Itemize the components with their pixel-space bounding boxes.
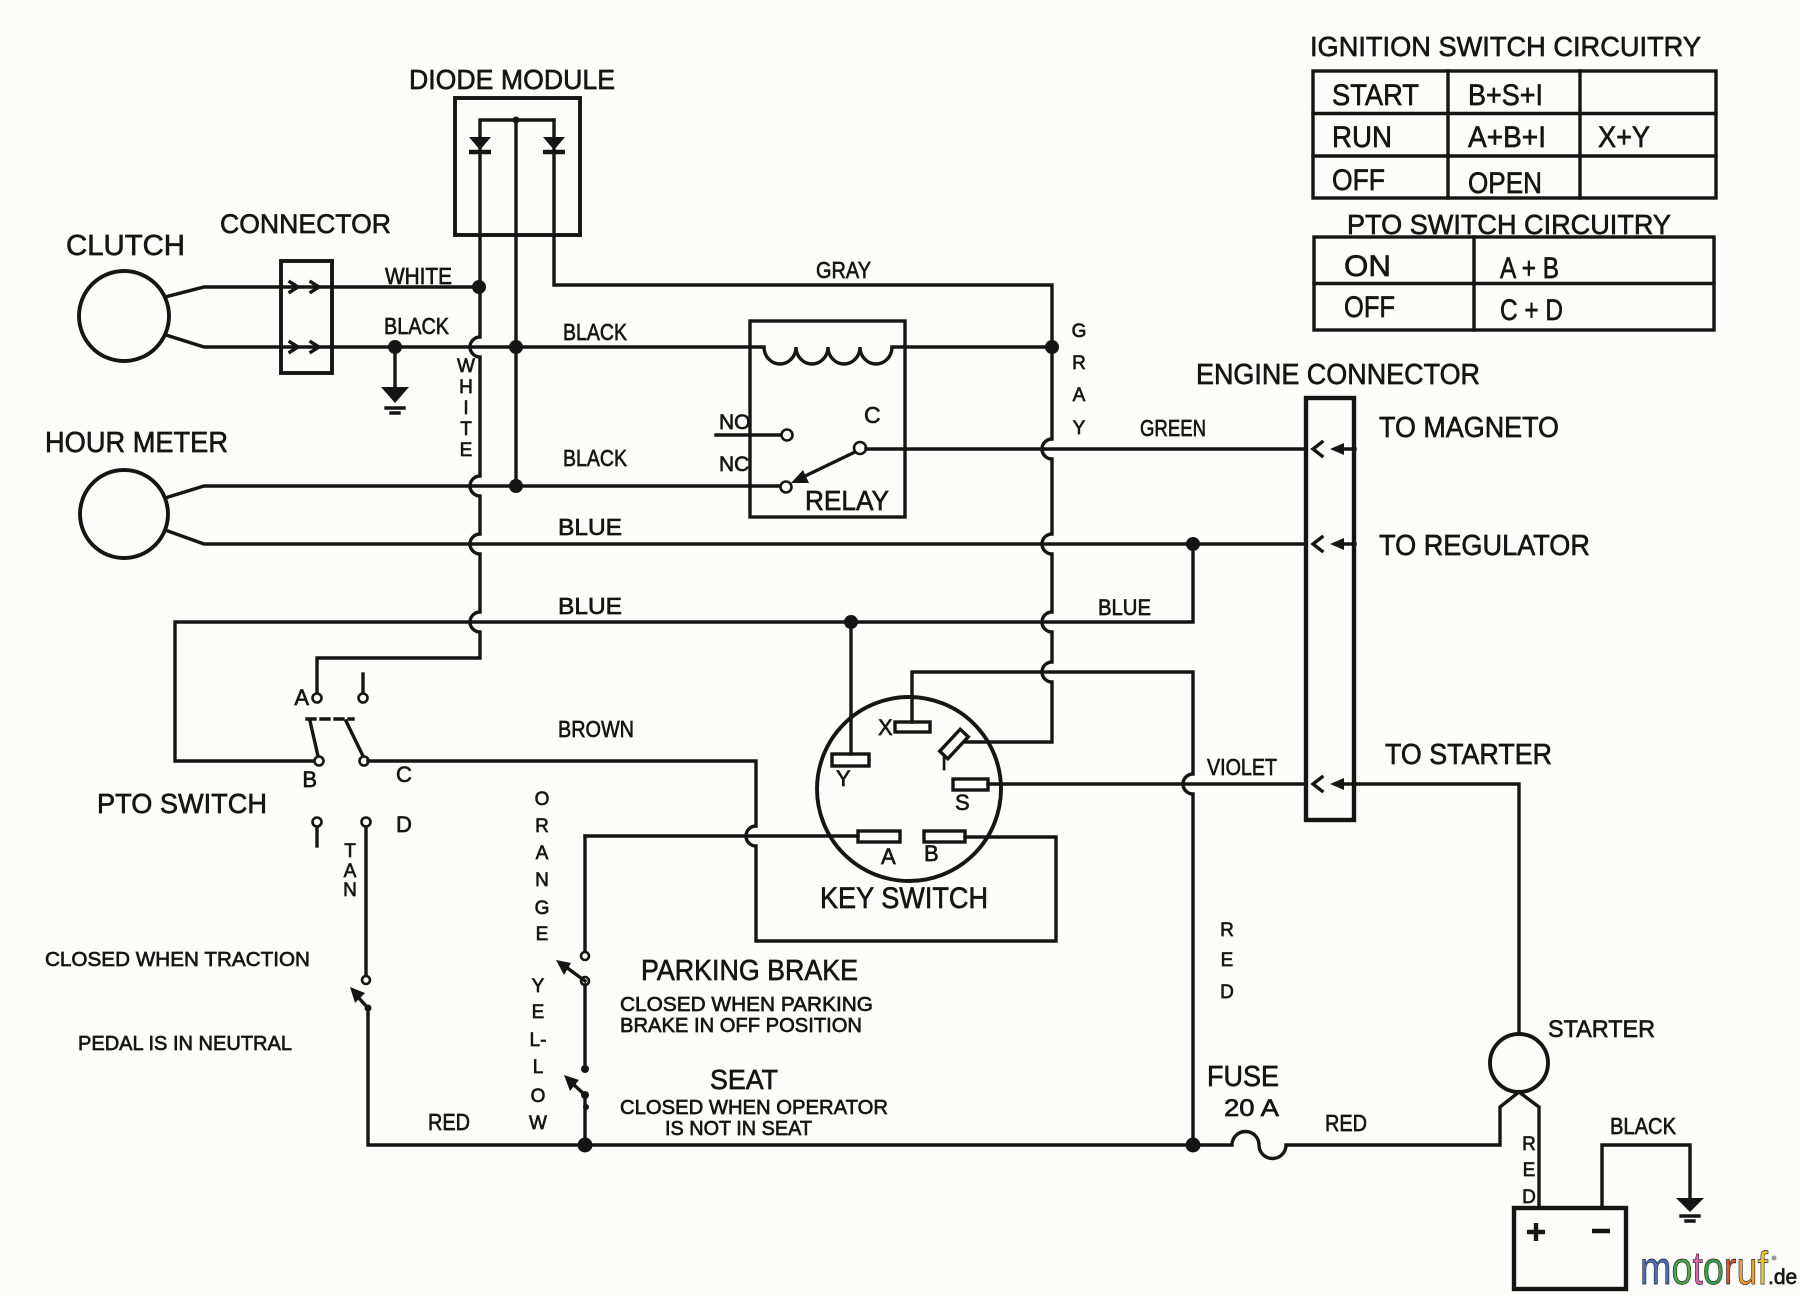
svg-text:A: A xyxy=(344,861,357,882)
svg-text:A+B+I: A+B+I xyxy=(1468,121,1546,154)
svg-text:BLUE: BLUE xyxy=(558,514,622,540)
svg-text:B: B xyxy=(302,767,317,792)
svg-text:OFF: OFF xyxy=(1344,291,1395,324)
svg-text:BLUE: BLUE xyxy=(558,593,622,619)
svg-text:CLOSED WHEN PARKING: CLOSED WHEN PARKING xyxy=(620,994,873,1016)
svg-text:GREEN: GREEN xyxy=(1140,415,1206,441)
svg-text:PTO SWITCH CIRCUITRY: PTO SWITCH CIRCUITRY xyxy=(1347,209,1671,240)
svg-text:motoruf: motoruf xyxy=(1640,1242,1768,1294)
svg-text:RED: RED xyxy=(428,1109,470,1135)
svg-text:RED: RED xyxy=(1325,1110,1367,1136)
svg-text:S: S xyxy=(955,790,970,815)
svg-text:FUSE: FUSE xyxy=(1207,1061,1279,1093)
svg-text:TO MAGNETO: TO MAGNETO xyxy=(1379,412,1559,444)
svg-text:T: T xyxy=(344,841,356,862)
svg-text:OFF: OFF xyxy=(1332,164,1385,197)
svg-text:T: T xyxy=(460,419,472,440)
svg-text:BLUE: BLUE xyxy=(1098,595,1151,620)
svg-text:L-: L- xyxy=(530,1030,547,1051)
svg-text:PTO SWITCH: PTO SWITCH xyxy=(97,788,267,819)
svg-text:20 A: 20 A xyxy=(1224,1095,1279,1122)
svg-text:Y: Y xyxy=(836,766,851,791)
svg-text:D: D xyxy=(1522,1187,1536,1208)
svg-text:BLACK: BLACK xyxy=(563,445,628,471)
svg-text:Y: Y xyxy=(1073,418,1086,439)
svg-text:BRAKE IN OFF POSITION: BRAKE IN OFF POSITION xyxy=(620,1015,862,1037)
svg-text:B: B xyxy=(924,841,939,866)
svg-text:WHITE: WHITE xyxy=(385,263,452,289)
svg-text:I: I xyxy=(941,750,947,775)
svg-text:ON: ON xyxy=(1344,250,1391,283)
svg-text:E: E xyxy=(460,440,473,461)
svg-text:C: C xyxy=(396,762,412,787)
svg-text:X+Y: X+Y xyxy=(1598,121,1650,154)
svg-text:BLACK: BLACK xyxy=(1610,1113,1677,1139)
svg-text:B+S+I: B+S+I xyxy=(1468,79,1543,112)
svg-text:IS NOT IN SEAT: IS NOT IN SEAT xyxy=(665,1118,812,1140)
svg-text:CONNECTOR: CONNECTOR xyxy=(220,209,391,239)
svg-text:CLOSED WHEN OPERATOR: CLOSED WHEN OPERATOR xyxy=(620,1097,888,1119)
svg-text:BLACK: BLACK xyxy=(384,313,450,339)
svg-text:C: C xyxy=(864,402,881,428)
svg-text:DIODE MODULE: DIODE MODULE xyxy=(409,64,615,95)
svg-text:A: A xyxy=(536,843,549,864)
svg-text:W: W xyxy=(529,1113,547,1134)
svg-text:PEDAL IS IN NEUTRAL: PEDAL IS IN NEUTRAL xyxy=(78,1033,292,1055)
svg-text:RUN: RUN xyxy=(1332,121,1392,154)
svg-text:X: X xyxy=(878,715,893,740)
svg-text:C + D: C + D xyxy=(1500,294,1563,327)
svg-text:KEY SWITCH: KEY SWITCH xyxy=(820,882,988,915)
svg-text:A: A xyxy=(294,685,309,710)
svg-text:N: N xyxy=(343,880,357,901)
svg-text:STARTER: STARTER xyxy=(1548,1016,1655,1043)
svg-text:CLOSED WHEN TRACTION: CLOSED WHEN TRACTION xyxy=(45,949,310,971)
svg-text:ENGINE CONNECTOR: ENGINE CONNECTOR xyxy=(1196,359,1480,391)
svg-text:R: R xyxy=(535,816,549,837)
svg-text:A + B: A + B xyxy=(1500,252,1559,285)
svg-text:R: R xyxy=(1522,1134,1536,1155)
svg-text:HOUR METER: HOUR METER xyxy=(45,427,228,459)
svg-text:E: E xyxy=(532,1002,545,1023)
svg-text:I: I xyxy=(463,398,468,419)
svg-text:O: O xyxy=(535,789,550,810)
svg-text:PARKING BRAKE: PARKING BRAKE xyxy=(641,955,858,987)
svg-text:IGNITION SWITCH CIRCUITRY: IGNITION SWITCH CIRCUITRY xyxy=(1310,31,1701,62)
svg-text:BLACK: BLACK xyxy=(563,319,628,345)
svg-text:OPEN: OPEN xyxy=(1468,167,1542,200)
svg-text:D: D xyxy=(1220,982,1234,1003)
svg-text:A: A xyxy=(881,844,896,869)
svg-text:Y: Y xyxy=(532,976,545,997)
svg-text:RELAY: RELAY xyxy=(805,485,889,516)
svg-text:L: L xyxy=(533,1057,544,1078)
svg-text:NC: NC xyxy=(719,453,749,476)
svg-text:CLUTCH: CLUTCH xyxy=(66,230,185,262)
svg-text:VIOLET: VIOLET xyxy=(1207,754,1277,780)
svg-text:SEAT: SEAT xyxy=(710,1064,778,1095)
svg-text:NO: NO xyxy=(719,411,751,434)
svg-text:E: E xyxy=(1221,950,1234,971)
svg-text:.de: .de xyxy=(1768,1266,1797,1289)
svg-text:A: A xyxy=(1073,385,1086,406)
svg-text:O: O xyxy=(531,1086,546,1107)
svg-text:H: H xyxy=(459,377,473,398)
svg-text:E: E xyxy=(536,924,549,945)
svg-text:W: W xyxy=(457,356,475,377)
svg-text:R: R xyxy=(1220,920,1234,941)
svg-text:G: G xyxy=(1072,321,1087,342)
svg-text:E: E xyxy=(1523,1160,1536,1181)
svg-text:START: START xyxy=(1332,79,1419,112)
svg-text:R: R xyxy=(1072,353,1086,374)
svg-text:N: N xyxy=(535,870,549,891)
svg-text:TO STARTER: TO STARTER xyxy=(1385,739,1552,771)
svg-text:TO REGULATOR: TO REGULATOR xyxy=(1379,530,1590,562)
svg-text:G: G xyxy=(535,898,550,919)
svg-text:BROWN: BROWN xyxy=(558,716,634,742)
svg-text:D: D xyxy=(396,812,412,837)
svg-text:GRAY: GRAY xyxy=(816,257,871,283)
